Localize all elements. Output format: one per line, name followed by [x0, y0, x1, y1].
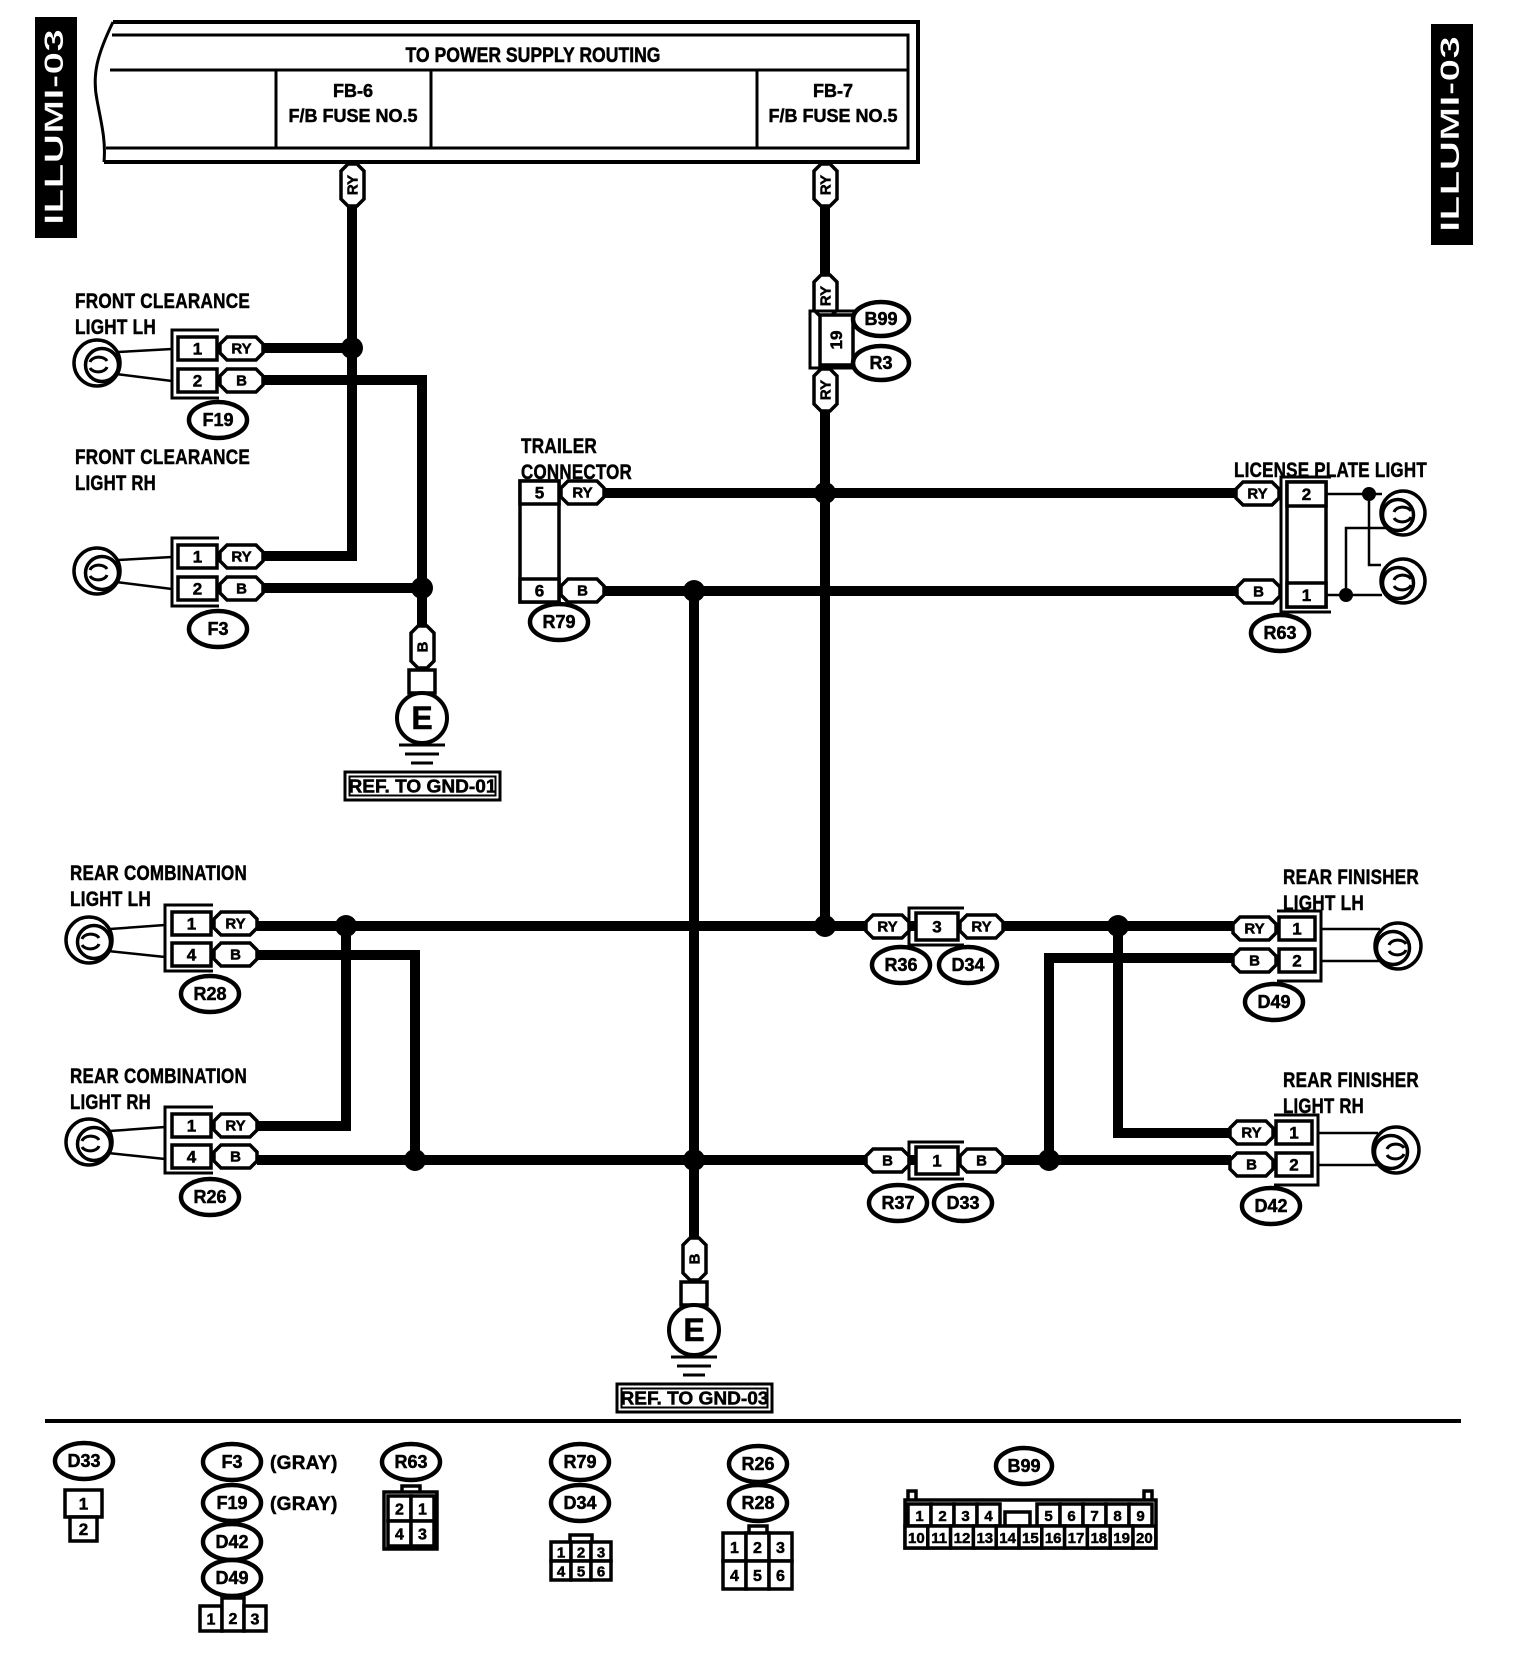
svg-text:D49: D49 — [215, 1568, 248, 1588]
svg-text:4: 4 — [557, 1564, 566, 1581]
svg-text:R28: R28 — [741, 1493, 774, 1513]
svg-text:B: B — [1249, 953, 1260, 970]
connector R26 housing — [165, 1107, 213, 1173]
svg-text:FRONT CLEARANCE: FRONT CLEARANCE — [75, 290, 250, 313]
wire colour tag B pin 6 R79 — [561, 579, 604, 602]
svg-text:1: 1 — [915, 1508, 923, 1525]
inline connector pin 19 (B99/R3) — [810, 311, 857, 368]
wire colour tag RY below FB-6 — [341, 164, 364, 206]
junction front clearance B net — [411, 577, 433, 599]
legend note gray F19 — [270, 1494, 338, 1515]
svg-text:F/B FUSE NO.5: F/B FUSE NO.5 — [768, 106, 897, 126]
svg-text:LIGHT LH: LIGHT LH — [75, 316, 156, 339]
connector R63 body — [1287, 482, 1326, 607]
svg-text:B: B — [230, 1149, 241, 1166]
svg-text:1: 1 — [418, 1502, 427, 1519]
connector F3 housing — [172, 538, 219, 606]
wire RY rear combination RH up to LH row — [257, 926, 346, 1126]
svg-text:1: 1 — [557, 1545, 565, 1562]
wire colour tag RY below connector 19 — [814, 369, 837, 411]
connector label R26 — [181, 1179, 239, 1215]
wire colour tag B license plate — [1237, 580, 1280, 603]
page label ILLUMI-03 right — [1431, 24, 1473, 245]
legend connector label F19 — [203, 1485, 261, 1521]
power supply routing harness bar — [95, 22, 918, 162]
connector F19 housing — [172, 330, 219, 398]
svg-text:R63: R63 — [1263, 623, 1296, 643]
svg-text:R36: R36 — [884, 955, 917, 975]
svg-text:20: 20 — [1136, 1530, 1153, 1547]
legend note gray F3 — [270, 1453, 338, 1474]
junction B net to ground — [683, 580, 705, 602]
bulb rear combination RH — [66, 1119, 112, 1165]
connector R79 pin 5 — [520, 481, 559, 504]
junction RY with FB-7 feed — [814, 482, 836, 504]
ground hatching — [671, 1356, 717, 1359]
ground wire tag B — [683, 1238, 706, 1280]
wire colour tag RY below FB-7 — [814, 164, 837, 206]
svg-text:4: 4 — [984, 1508, 993, 1525]
connector D49 housing — [1277, 911, 1321, 981]
legend connector label D49 — [203, 1560, 261, 1596]
ground symbol E — [669, 1305, 719, 1355]
wire RY rear row — [257, 921, 1233, 931]
legend connector B99 drawing — [905, 1491, 1156, 1548]
svg-text:TO POWER SUPPLY ROUTING: TO POWER SUPPLY ROUTING — [406, 44, 661, 67]
legend connector R26/R28 drawing — [723, 1526, 792, 1589]
connector R63 housing bracket — [1281, 477, 1331, 612]
wire colour tag B finisher LH — [1233, 949, 1276, 972]
wire colour tag RY finisher RH — [1230, 1121, 1273, 1144]
wire colour tag RY pin 1 R26 — [214, 1114, 257, 1137]
wire colour tag B pin 2 F19 — [220, 369, 263, 392]
trailer connector label — [521, 435, 632, 484]
connector label D49 — [1245, 984, 1303, 1020]
legend connector R79/D34 drawing — [551, 1535, 611, 1581]
svg-text:RY: RY — [1244, 921, 1264, 938]
svg-text:5: 5 — [1044, 1508, 1052, 1525]
svg-text:7: 7 — [1090, 1508, 1098, 1525]
svg-text:LIGHT LH: LIGHT LH — [70, 888, 151, 911]
svg-text:9: 9 — [1136, 1508, 1144, 1525]
svg-text:D42: D42 — [215, 1532, 248, 1552]
connector F3 pin 1 — [178, 545, 217, 568]
svg-text:D42: D42 — [1254, 1196, 1287, 1216]
connector R79 pin 6 — [520, 579, 559, 602]
svg-text:5: 5 — [753, 1568, 762, 1585]
junction RY rear row with FB-7 feed — [814, 915, 836, 937]
svg-text:12: 12 — [954, 1530, 971, 1547]
svg-text:D33: D33 — [67, 1451, 100, 1471]
bulb leads finisher RH — [1318, 1133, 1378, 1165]
svg-text:1: 1 — [932, 1152, 941, 1171]
svg-text:RY: RY — [877, 919, 897, 936]
svg-text:2: 2 — [395, 1502, 404, 1519]
wire B front clearance RH — [263, 583, 422, 593]
svg-text:RY: RY — [225, 916, 245, 933]
svg-text:D34: D34 — [563, 1493, 596, 1513]
svg-text:5: 5 — [577, 1564, 585, 1581]
svg-text:1: 1 — [187, 915, 196, 934]
svg-text:1: 1 — [79, 1495, 88, 1514]
svg-text:2: 2 — [193, 372, 202, 391]
connector label R3 — [853, 346, 909, 380]
svg-text:REF. TO GND-01: REF. TO GND-01 — [349, 777, 497, 797]
bulb front clearance LH — [74, 340, 120, 386]
junction front clearance RY — [341, 337, 363, 359]
legend connector D33 drawing — [65, 1490, 102, 1541]
connector F3 pin 2 — [178, 577, 217, 600]
svg-text:B: B — [230, 947, 241, 964]
junction license B — [1339, 588, 1353, 602]
svg-text:B: B — [236, 581, 247, 598]
rear combination light RH label — [70, 1065, 247, 1114]
bulb license plate lower — [1381, 559, 1425, 603]
svg-text:REAR FINISHER: REAR FINISHER — [1283, 866, 1419, 889]
svg-text:3: 3 — [251, 1612, 260, 1629]
bulb rear combination LH — [66, 917, 112, 963]
svg-text:8: 8 — [1113, 1508, 1121, 1525]
svg-text:REAR COMBINATION: REAR COMBINATION — [70, 862, 247, 885]
svg-text:(GRAY): (GRAY) — [270, 1453, 338, 1474]
svg-text:1: 1 — [1302, 586, 1311, 605]
connector D42 pin 1 — [1276, 1121, 1312, 1144]
svg-text:RY: RY — [345, 175, 362, 195]
wire colour tag RY left of connector 3 — [866, 915, 909, 938]
wire colour tag RY finisher LH — [1233, 917, 1276, 940]
svg-text:LIGHT RH: LIGHT RH — [75, 472, 156, 495]
ground joint connector — [681, 1282, 707, 1305]
connector R28 pin 4 — [172, 943, 211, 966]
rear finisher light RH label — [1283, 1069, 1419, 1118]
connector R26 pin 1 — [172, 1114, 211, 1137]
bulb leads RH — [116, 557, 172, 589]
front clearance light LH label — [75, 290, 250, 339]
svg-text:B: B — [1246, 1157, 1257, 1174]
svg-text:RY: RY — [231, 341, 251, 358]
wire B down to ground GND-01 — [417, 588, 427, 628]
svg-text:6: 6 — [1067, 1508, 1075, 1525]
wire colour tag RY pin 1 F19 — [220, 337, 263, 360]
svg-text:B: B — [882, 1153, 893, 1170]
junction license RY — [1362, 487, 1376, 501]
svg-text:1: 1 — [193, 548, 202, 567]
svg-text:B: B — [577, 583, 588, 600]
bulb leads LH — [116, 349, 172, 381]
svg-text:3: 3 — [961, 1508, 969, 1525]
svg-text:RY: RY — [818, 175, 835, 195]
svg-text:5: 5 — [535, 484, 544, 503]
svg-text:B: B — [415, 641, 432, 652]
connector F19 pin 2 — [178, 369, 217, 392]
license plate lamp wiring — [1326, 494, 1386, 595]
legend connector label D34 — [551, 1485, 609, 1521]
svg-text:19: 19 — [827, 331, 846, 350]
svg-text:4: 4 — [187, 946, 197, 965]
svg-text:RY: RY — [572, 485, 592, 502]
wire colour tag RY pin 1 R28 — [214, 912, 257, 935]
svg-text:F19: F19 — [202, 410, 233, 430]
legend separator line — [45, 1419, 1461, 1423]
svg-text:3: 3 — [597, 1545, 605, 1562]
svg-text:FRONT CLEARANCE: FRONT CLEARANCE — [75, 446, 250, 469]
inline connector pin 3 (R36/D34) — [909, 908, 964, 945]
svg-text:REAR FINISHER: REAR FINISHER — [1283, 1069, 1419, 1092]
svg-text:R79: R79 — [542, 612, 575, 632]
legend connector label R26 — [729, 1446, 787, 1482]
svg-text:2: 2 — [1292, 952, 1301, 971]
connector label R28 — [181, 976, 239, 1012]
wire RY down to rear finisher RH — [1118, 926, 1231, 1133]
svg-text:18: 18 — [1090, 1530, 1107, 1547]
svg-text:RY: RY — [1247, 486, 1267, 503]
wire colour tag B pin 2 F3 — [220, 577, 263, 600]
wire B rear combination LH — [257, 955, 415, 1160]
wire colour tag RY above connector 19 — [814, 275, 837, 317]
wire colour tag RY license plate — [1236, 482, 1279, 505]
connector D42 housing — [1274, 1115, 1318, 1185]
svg-text:14: 14 — [999, 1530, 1016, 1547]
svg-text:D33: D33 — [946, 1193, 979, 1213]
wire colour tag RY right of connector 3 — [960, 915, 1003, 938]
ground hatching — [399, 744, 445, 747]
rear finisher light LH label — [1283, 866, 1419, 915]
svg-text:1: 1 — [187, 1117, 196, 1136]
legend connector label D42 — [203, 1524, 261, 1560]
legend connector label R28 — [729, 1485, 787, 1521]
svg-text:17: 17 — [1068, 1530, 1085, 1547]
svg-text:3: 3 — [932, 918, 941, 937]
connector label R37 — [869, 1185, 927, 1221]
svg-text:4: 4 — [730, 1568, 739, 1585]
svg-text:B99: B99 — [1007, 1456, 1040, 1476]
connector D49 pin 2 — [1279, 949, 1315, 972]
svg-text:(GRAY): (GRAY) — [270, 1494, 338, 1515]
ground reference label REF. TO GND-01 — [345, 772, 500, 800]
svg-text:ILLUMI-03: ILLUMI-03 — [39, 29, 69, 225]
svg-text:RY: RY — [971, 919, 991, 936]
page label ILLUMI-03 left — [35, 17, 77, 238]
svg-text:RY: RY — [818, 380, 835, 400]
svg-text:ILLUMI-03: ILLUMI-03 — [1435, 36, 1465, 232]
svg-text:R79: R79 — [563, 1452, 596, 1472]
wire RY trailer to license plate light — [604, 488, 1236, 498]
legend connector F3/F19/D42/D49 drawing — [200, 1598, 266, 1631]
connector label F3 — [189, 611, 247, 647]
svg-text:B: B — [1253, 584, 1264, 601]
svg-text:F3: F3 — [221, 1452, 242, 1472]
wire B vertical to rear row — [689, 591, 699, 1160]
inline connector pin 1 (R37/D33) — [909, 1142, 964, 1179]
license plate light label — [1234, 459, 1427, 482]
svg-text:FB-6: FB-6 — [333, 81, 373, 101]
legend connector label B99 — [996, 1448, 1052, 1484]
connector label R79 — [530, 604, 588, 640]
bulb front clearance RH — [74, 548, 120, 594]
svg-text:LIGHT RH: LIGHT RH — [70, 1091, 151, 1114]
svg-text:2: 2 — [79, 1520, 88, 1539]
svg-text:E: E — [411, 700, 432, 736]
svg-text:R28: R28 — [193, 984, 226, 1004]
svg-text:LICENSE PLATE LIGHT: LICENSE PLATE LIGHT — [1234, 459, 1427, 482]
connector R26 pin 4 — [172, 1145, 211, 1168]
connector label B99 — [853, 302, 909, 336]
svg-text:19: 19 — [1113, 1530, 1130, 1547]
connector label R36 — [872, 947, 930, 983]
svg-text:2: 2 — [753, 1540, 762, 1557]
svg-text:1: 1 — [1289, 1124, 1298, 1143]
svg-text:TRAILER: TRAILER — [521, 435, 597, 458]
junction B rear row with combination LH — [404, 1149, 426, 1171]
svg-text:RY: RY — [1241, 1125, 1261, 1142]
svg-text:RY: RY — [231, 549, 251, 566]
connector R79 housing — [520, 481, 559, 602]
wire RY front clearance RH — [263, 551, 357, 561]
wire B up to rear finisher LH — [1049, 958, 1233, 1160]
wire RY from FB-6 fuse down to front clearance junction — [347, 162, 357, 556]
bulb leads rear combination LH — [108, 925, 165, 957]
svg-text:3: 3 — [776, 1540, 785, 1557]
wire B front clearance LH — [263, 380, 422, 588]
svg-text:6: 6 — [597, 1564, 605, 1581]
svg-text:1: 1 — [1292, 920, 1301, 939]
junction B rear row to finisher LH — [1038, 1149, 1060, 1171]
connector D42 pin 2 — [1276, 1153, 1312, 1176]
legend connector label F3 — [203, 1444, 261, 1480]
bulb rear finisher LH — [1375, 923, 1421, 969]
connector label R63 — [1251, 615, 1309, 651]
svg-text:F19: F19 — [216, 1493, 247, 1513]
bulb rear finisher RH — [1373, 1127, 1419, 1173]
svg-text:R26: R26 — [193, 1187, 226, 1207]
ground joint connector — [409, 670, 435, 693]
svg-text:1: 1 — [193, 340, 202, 359]
svg-text:B: B — [236, 373, 247, 390]
junction RY rear row to finisher RH — [1107, 915, 1129, 937]
svg-text:2: 2 — [938, 1508, 946, 1525]
svg-text:B99: B99 — [864, 309, 897, 329]
wire colour tag B pin 4 R26 — [214, 1145, 257, 1168]
svg-text:FB-7: FB-7 — [813, 81, 853, 101]
svg-text:RY: RY — [225, 1118, 245, 1135]
wire B trailer to license plate light — [604, 586, 1237, 596]
bulb leads finisher LH — [1321, 929, 1380, 961]
ground reference label REF. TO GND-03 — [617, 1384, 772, 1412]
svg-text:R3: R3 — [869, 353, 892, 373]
wire colour tag RY pin 1 F3 — [220, 545, 263, 568]
svg-text:4: 4 — [187, 1148, 197, 1167]
svg-text:13: 13 — [976, 1530, 993, 1547]
svg-text:E: E — [683, 1312, 704, 1348]
svg-text:R37: R37 — [881, 1193, 914, 1213]
junction B rear row with ground feed — [683, 1149, 705, 1171]
wire colour tag RY pin 5 R79 — [561, 481, 604, 504]
connector F19 pin 1 — [178, 337, 217, 360]
svg-text:REF. TO GND-03: REF. TO GND-03 — [621, 1389, 769, 1409]
svg-text:11: 11 — [931, 1530, 947, 1547]
connector label D34 — [939, 947, 997, 983]
svg-text:15: 15 — [1022, 1530, 1039, 1547]
svg-text:4: 4 — [395, 1527, 404, 1544]
svg-text:F3: F3 — [207, 619, 228, 639]
front clearance light RH label — [75, 446, 250, 495]
legend connector label R63 — [382, 1444, 440, 1480]
wire B down to ground GND-03 — [689, 1160, 699, 1240]
wire RY front clearance LH to junction — [263, 343, 352, 353]
ground symbol E — [397, 693, 447, 743]
bulb leads rear combination RH — [108, 1127, 165, 1159]
connector R28 housing — [165, 905, 213, 971]
bulb license plate upper — [1381, 491, 1425, 535]
svg-text:B: B — [687, 1253, 704, 1264]
svg-text:D49: D49 — [1257, 992, 1290, 1012]
svg-text:B: B — [976, 1153, 987, 1170]
wire colour tag B finisher RH — [1230, 1153, 1273, 1176]
svg-text:10: 10 — [908, 1530, 925, 1547]
svg-text:REAR COMBINATION: REAR COMBINATION — [70, 1065, 247, 1088]
svg-text:3: 3 — [418, 1527, 427, 1544]
wire colour tag B right of connector 1 — [960, 1149, 1003, 1172]
svg-text:6: 6 — [776, 1568, 785, 1585]
connector R28 pin 1 — [172, 912, 211, 935]
legend connector R63 drawing — [384, 1486, 437, 1549]
svg-text:D34: D34 — [951, 955, 984, 975]
wire colour tag B pin 4 R28 — [214, 943, 257, 966]
connector D49 pin 1 — [1279, 917, 1315, 940]
svg-text:RY: RY — [818, 286, 835, 306]
legend connector label R79 — [551, 1444, 609, 1480]
legend connector label D33 — [55, 1443, 113, 1479]
connector R63 pin 2 — [1287, 482, 1326, 506]
svg-text:2: 2 — [1289, 1156, 1298, 1175]
junction RY rear row with combination LH — [335, 915, 357, 937]
wire B rear row — [257, 1155, 1231, 1165]
connector label F19 — [189, 402, 247, 438]
svg-text:2: 2 — [229, 1611, 238, 1628]
svg-text:1: 1 — [207, 1612, 216, 1629]
svg-text:6: 6 — [535, 582, 544, 601]
svg-text:R63: R63 — [394, 1452, 427, 1472]
svg-text:16: 16 — [1045, 1530, 1062, 1547]
connector R63 pin 1 — [1287, 583, 1326, 607]
svg-text:R26: R26 — [741, 1454, 774, 1474]
ground wire tag B — [411, 626, 434, 668]
wire colour tag B left of connector 1 — [866, 1149, 909, 1172]
wire RY from FB-7 fuse down through B99/R3 to rear row — [820, 162, 830, 927]
svg-text:1: 1 — [730, 1540, 739, 1557]
svg-text:F/B FUSE NO.5: F/B FUSE NO.5 — [288, 106, 417, 126]
rear combination light LH label — [70, 862, 247, 911]
svg-text:2: 2 — [193, 580, 202, 599]
svg-text:2: 2 — [577, 1545, 585, 1562]
connector label D33 — [934, 1185, 992, 1221]
svg-text:2: 2 — [1302, 485, 1311, 504]
connector label D42 — [1242, 1188, 1300, 1224]
